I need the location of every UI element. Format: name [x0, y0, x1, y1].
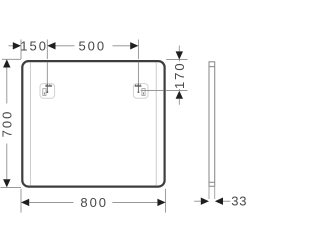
svg-text:800: 800 [80, 195, 108, 210]
svg-text:150: 150 [20, 38, 48, 53]
svg-text:700: 700 [0, 110, 14, 138]
svg-text:170: 170 [172, 61, 187, 89]
svg-text:33: 33 [231, 194, 247, 209]
svg-text:500: 500 [78, 38, 106, 53]
